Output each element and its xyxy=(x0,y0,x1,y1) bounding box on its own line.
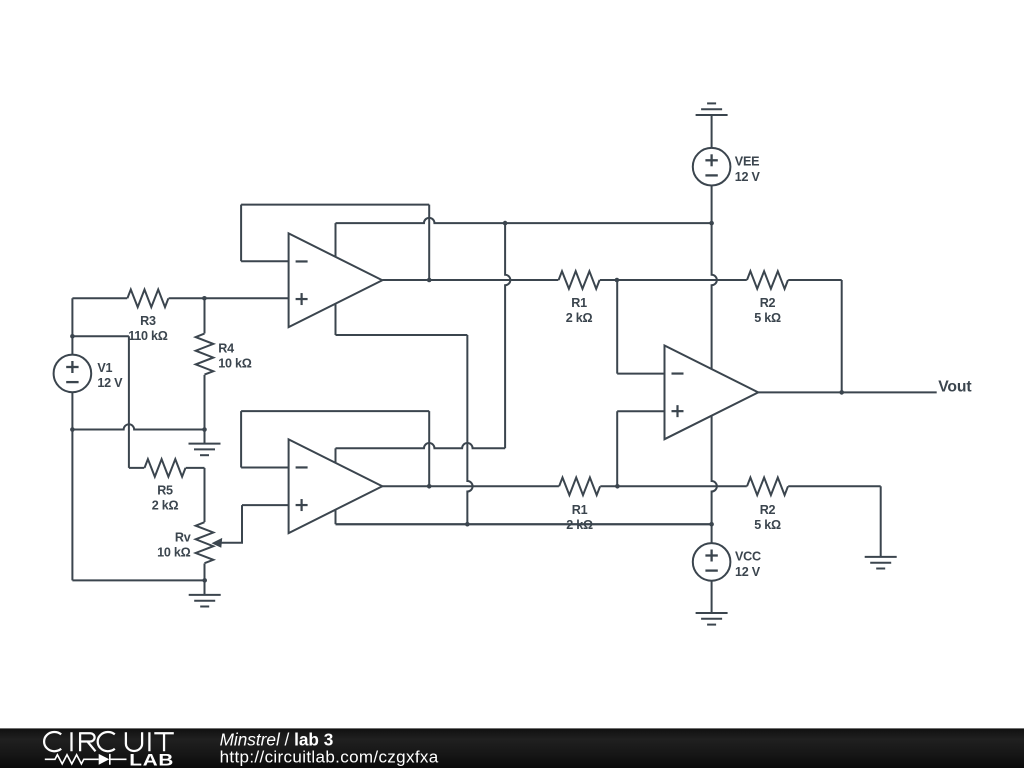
svg-text:R1: R1 xyxy=(572,503,588,517)
svg-text:Vout: Vout xyxy=(938,378,972,395)
svg-text:5 kΩ: 5 kΩ xyxy=(754,311,781,325)
svg-text:VEE: VEE xyxy=(735,154,759,168)
svg-text:110 kΩ: 110 kΩ xyxy=(128,329,168,343)
svg-text:10 kΩ: 10 kΩ xyxy=(157,545,191,559)
svg-text:LAB: LAB xyxy=(129,751,174,768)
svg-text:2 kΩ: 2 kΩ xyxy=(152,499,179,513)
svg-text:Minstrel / lab 3: Minstrel / lab 3 xyxy=(220,729,334,749)
svg-text:12 V: 12 V xyxy=(97,376,123,390)
svg-text:R1: R1 xyxy=(571,296,587,310)
svg-text:R3: R3 xyxy=(140,314,156,328)
svg-text:2 kΩ: 2 kΩ xyxy=(566,311,593,325)
svg-text:R5: R5 xyxy=(157,484,173,498)
svg-text:10 kΩ: 10 kΩ xyxy=(218,357,252,371)
svg-text:V1: V1 xyxy=(97,361,112,375)
svg-text:Rv: Rv xyxy=(175,530,191,544)
svg-text:R4: R4 xyxy=(218,342,234,356)
svg-text:VCC: VCC xyxy=(735,550,761,564)
svg-text:12 V: 12 V xyxy=(735,170,761,184)
svg-text:http://circuitlab.com/czgxfxa: http://circuitlab.com/czgxfxa xyxy=(220,748,439,767)
svg-text:R2: R2 xyxy=(760,296,776,310)
svg-text:5 kΩ: 5 kΩ xyxy=(754,518,781,532)
svg-text:R2: R2 xyxy=(760,503,776,517)
svg-text:12 V: 12 V xyxy=(735,565,761,579)
